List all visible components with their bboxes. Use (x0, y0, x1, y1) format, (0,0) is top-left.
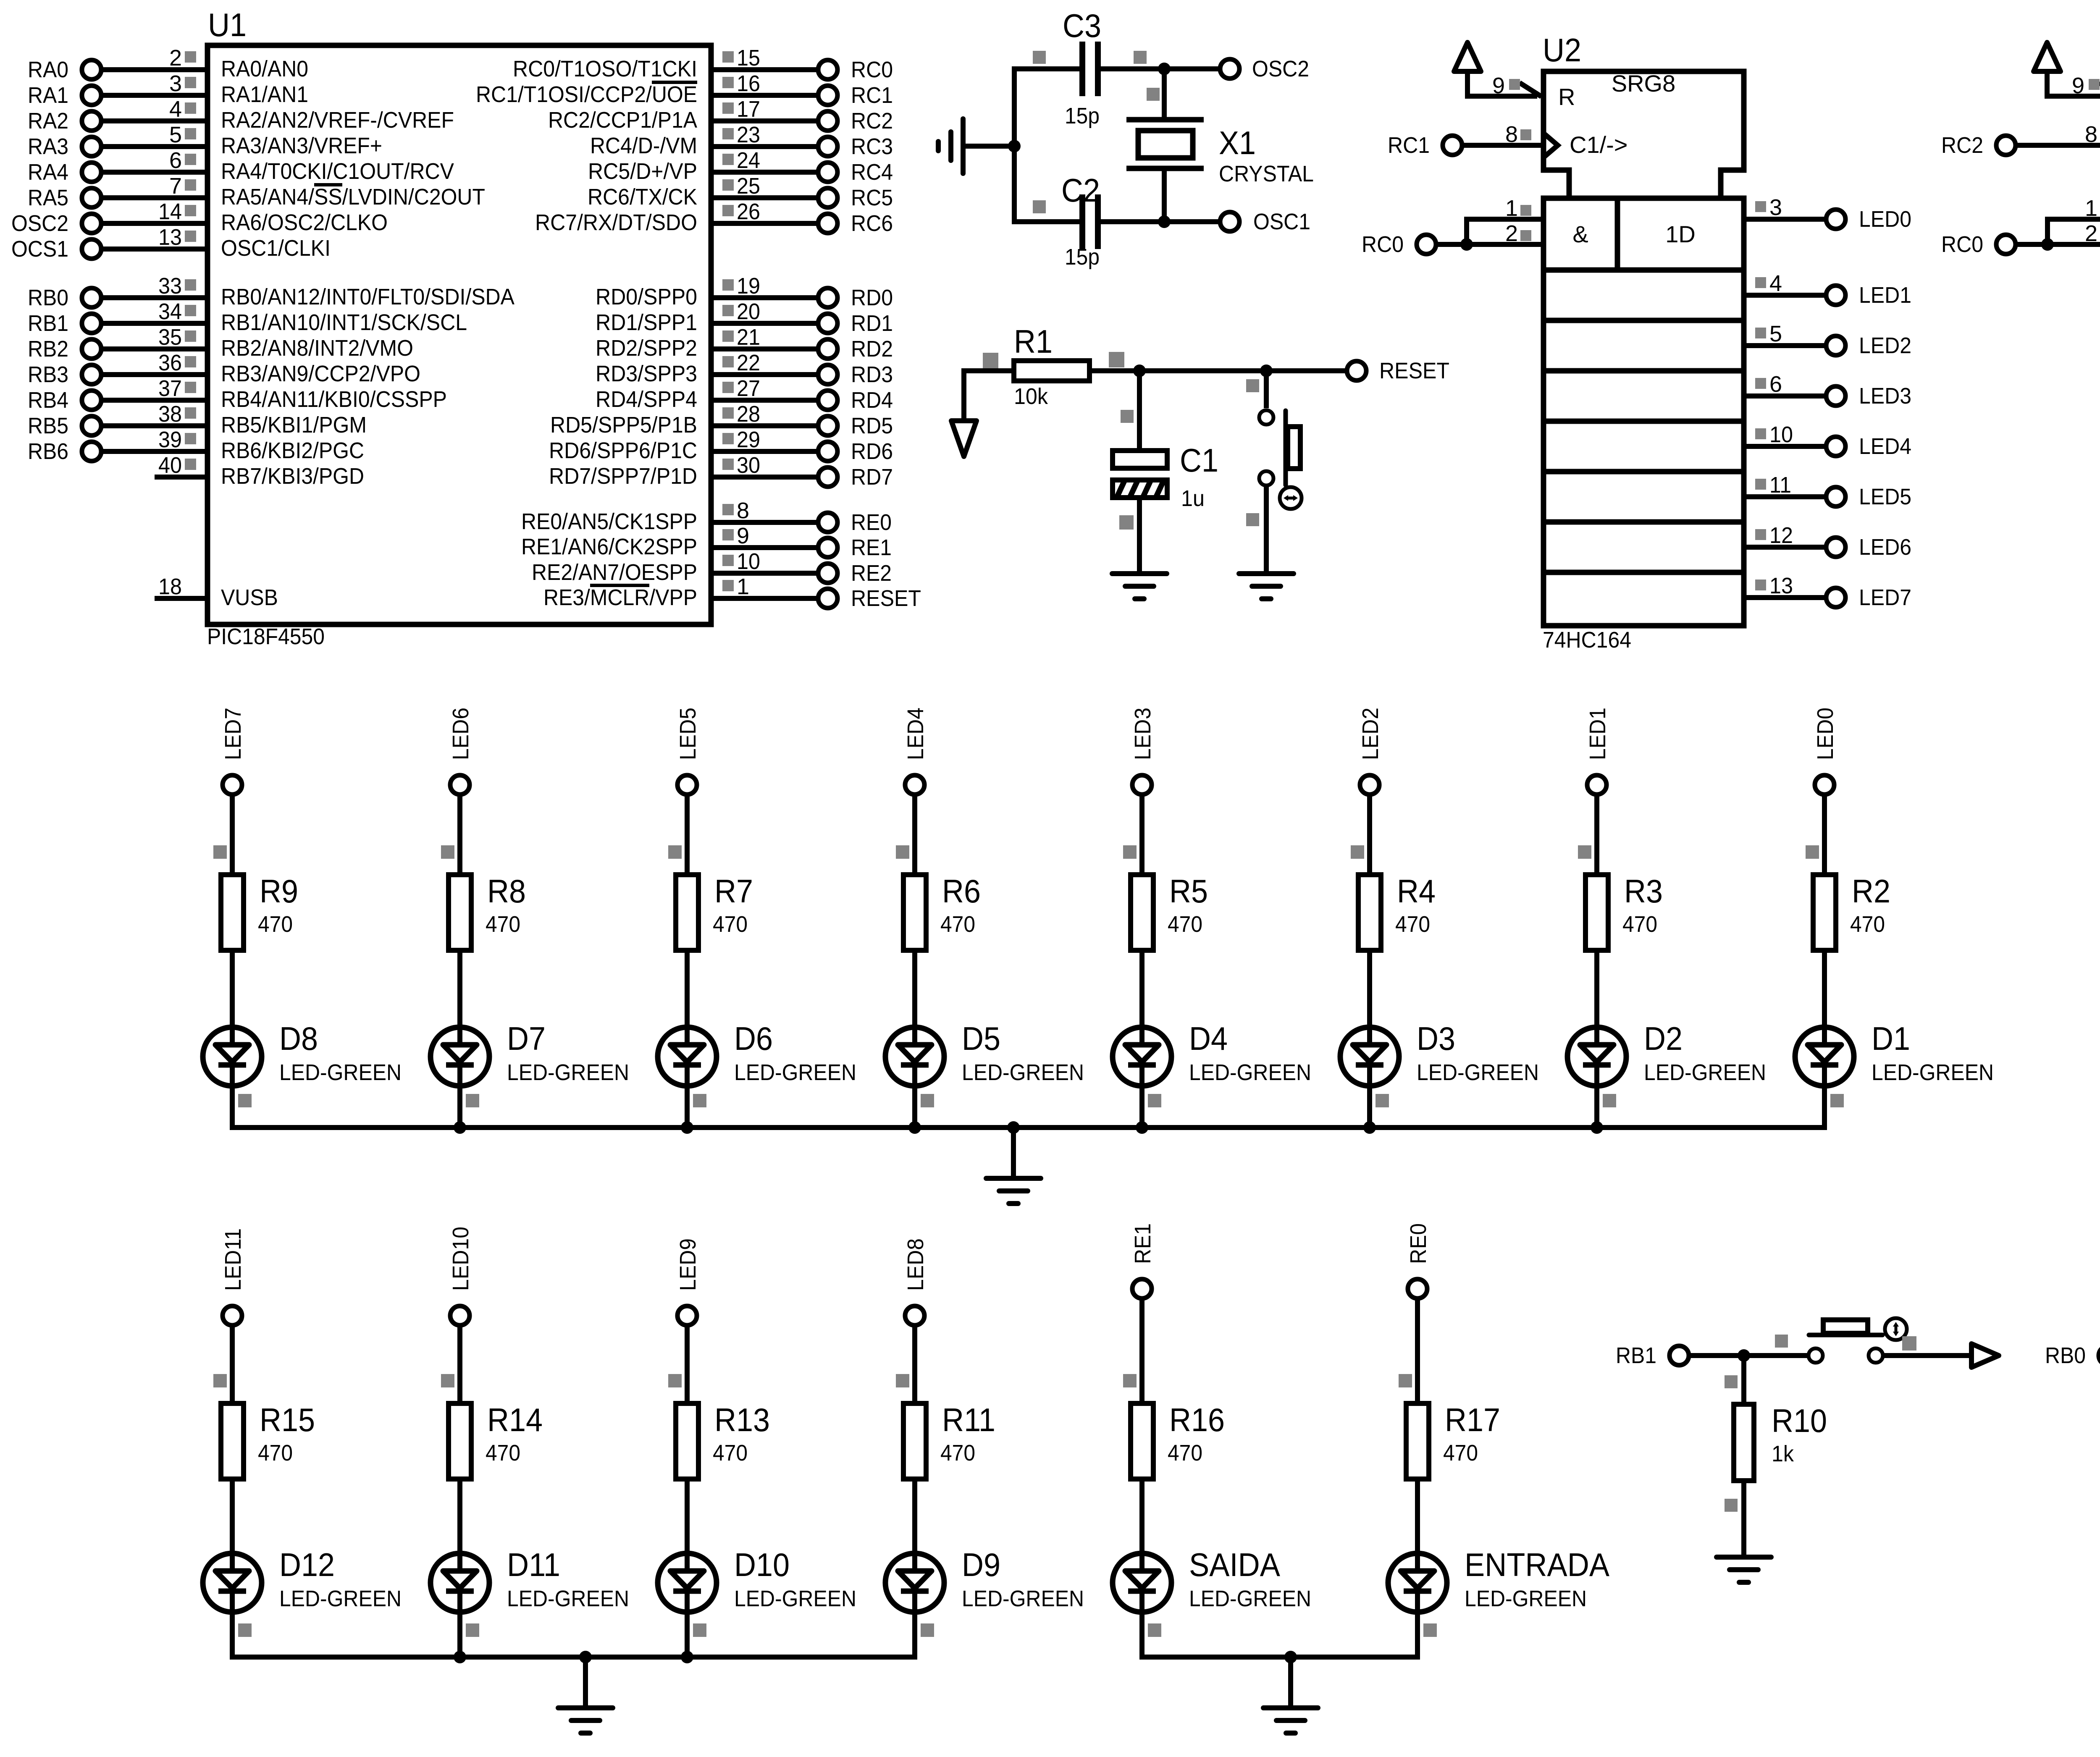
U2 part value 74HC164 (1543, 627, 1631, 653)
svg-text:RB4/AN11/KBI0/CSSPP: RB4/AN11/KBI0/CSSPP (221, 387, 447, 412)
svg-text:RD5: RD5 (851, 413, 893, 438)
svg-text:R6: R6 (942, 873, 981, 910)
junction node bus row1 x3802 (1591, 1121, 1603, 1134)
ground (row 1 bus) (986, 1128, 1041, 1204)
U1 pin 2 (RA0/AN0) (28, 45, 308, 82)
svg-text:RC2: RC2 (851, 108, 893, 134)
ground (crystal, rotated) (938, 119, 1014, 173)
svg-text:RC2/CCP1/P1A: RC2/CCP1/P1A (548, 108, 697, 133)
svg-text:LED4: LED4 (903, 708, 928, 760)
U2 pin 10 output wire (1744, 422, 1827, 447)
terminal LED5 (677, 775, 697, 795)
net label LED5 (vertical) (675, 708, 701, 760)
net label LED10 (vertical) (448, 1227, 473, 1291)
svg-text:R16: R16 (1169, 1401, 1225, 1438)
terminal LED7 (1826, 585, 1911, 610)
svg-text:470: 470 (486, 1440, 520, 1466)
svg-text:3: 3 (169, 71, 182, 96)
svg-text:OCS1: OCS1 (11, 236, 68, 262)
svg-text:LED-GREEN: LED-GREEN (734, 1586, 856, 1611)
LED D6 LED-GREEN (658, 1020, 856, 1086)
output arrow terminal (RB1) (1971, 1344, 1999, 1367)
wire RB1 to button (1688, 1335, 1809, 1356)
svg-text:D6: D6 (734, 1020, 773, 1057)
net label LED9 (vertical) (675, 1238, 701, 1291)
wire D3 to bus (1370, 1086, 1389, 1130)
svg-text:1D: 1D (1665, 221, 1696, 247)
U1 pin 37 (RB4/AN11/KBI0/CSSPP) (28, 376, 447, 413)
junction node RC0 U3 (2041, 238, 2054, 251)
resistor R9 470 (221, 873, 298, 950)
push button (reset) vertical (1246, 371, 1302, 574)
terminal LED8 (905, 1306, 924, 1325)
svg-text:RESET: RESET (1379, 358, 1449, 383)
svg-text:LED4: LED4 (1859, 434, 1911, 459)
svg-text:470: 470 (1850, 912, 1885, 937)
U3 pin 2 number (2085, 221, 2100, 246)
svg-text:RC6: RC6 (851, 211, 893, 236)
svg-text:470: 470 (258, 1440, 293, 1466)
U1 pin 23 (RC4/D-/VM) (590, 122, 893, 159)
wire crystal bottom lead (1162, 168, 1167, 222)
U2 pin 3 output wire (1744, 195, 1827, 220)
svg-text:LED6: LED6 (1859, 535, 1911, 560)
resistor R4 470 (1358, 873, 1436, 950)
svg-text:33: 33 (158, 273, 182, 299)
svg-text:RB6: RB6 (28, 439, 68, 464)
svg-text:24: 24 (737, 148, 760, 173)
svg-text:26: 26 (737, 199, 760, 224)
svg-text:RC5/D+/VP: RC5/D+/VP (588, 159, 697, 184)
chip U2 74HC164 control block (1543, 71, 1744, 198)
svg-text:21: 21 (737, 325, 760, 350)
svg-text:8: 8 (1505, 122, 1518, 147)
svg-text:470: 470 (713, 912, 748, 937)
svg-text:25: 25 (737, 173, 760, 199)
svg-text:RC5: RC5 (851, 185, 893, 210)
terminal RC2 (clock input U3) (1941, 133, 2100, 158)
svg-text:ENTRADA: ENTRADA (1465, 1546, 1609, 1583)
ground bus (row 1 LEDs) (230, 1125, 1827, 1130)
U1 pin 21 (RD2/SPP2) (596, 325, 893, 362)
junction node bus row1 x1636 (681, 1121, 693, 1134)
terminal OSC2 (1220, 56, 1309, 81)
U2 pin 9 number (1492, 73, 1520, 98)
svg-text:RD1: RD1 (851, 311, 893, 336)
wire D5 to bus (915, 1086, 934, 1130)
svg-text:D2: D2 (1644, 1020, 1683, 1057)
wire D6 to bus (687, 1086, 706, 1130)
svg-text:LED8: LED8 (903, 1238, 928, 1291)
svg-text:2: 2 (2085, 221, 2097, 246)
svg-text:RB0: RB0 (2045, 1343, 2086, 1368)
svg-text:RA6/OSC2/CLKO: RA6/OSC2/CLKO (221, 210, 388, 235)
svg-text:14: 14 (158, 199, 182, 224)
svg-text:37: 37 (158, 376, 182, 401)
svg-text:2: 2 (1505, 221, 1518, 246)
junction node bus row2 x1636 (681, 1651, 693, 1663)
svg-text:470: 470 (1168, 1440, 1202, 1466)
svg-text:LED-GREEN: LED-GREEN (279, 1586, 402, 1611)
terminal LED4 (1826, 434, 1911, 459)
wire R7 to D6 (685, 950, 690, 1045)
terminal LED1 (1826, 283, 1911, 308)
ground bus (row 2 LEDs) (230, 1655, 917, 1660)
svg-text:RA1/AN1: RA1/AN1 (221, 82, 308, 107)
U2 pin 1 number (1505, 196, 1531, 221)
svg-text:SRG8: SRG8 (1612, 70, 1676, 97)
svg-text:R8: R8 (487, 873, 526, 910)
svg-text:OSC2: OSC2 (1252, 56, 1309, 81)
power-rail down arrow (R1 pull source) (951, 368, 976, 456)
wire D10 to bus (687, 1612, 706, 1660)
svg-text:11: 11 (1769, 472, 1791, 498)
U1 pin 6 (RA4/T0CKI/C1OUT/RCV) (28, 148, 454, 185)
wire LED6 to R8 (441, 794, 460, 875)
svg-text:10: 10 (1769, 422, 1793, 447)
svg-text:RA4: RA4 (28, 160, 68, 185)
svg-text:LED-GREEN: LED-GREEN (734, 1060, 856, 1085)
wire R15 to D12 (230, 1479, 235, 1571)
svg-text:R15: R15 (260, 1401, 315, 1438)
svg-text:LED2: LED2 (1358, 708, 1383, 760)
svg-text:LED7: LED7 (1859, 585, 1911, 610)
svg-text:18: 18 (158, 574, 182, 599)
wire LED9 to R13 (668, 1325, 687, 1403)
svg-text:RC4: RC4 (851, 160, 893, 185)
wire OSC2 top rail (1014, 66, 1221, 71)
svg-text:X1: X1 (1219, 124, 1256, 161)
svg-text:RD3: RD3 (851, 362, 893, 387)
svg-text:R10: R10 (1772, 1402, 1827, 1439)
wire LED2 to R4 (1351, 794, 1370, 875)
wire D2 to bus (1597, 1086, 1616, 1130)
svg-text:RE1/AN6/CK2SPP: RE1/AN6/CK2SPP (521, 534, 697, 559)
svg-text:D4: D4 (1189, 1020, 1228, 1057)
U1 pin 33 (RB0/AN12/INT0/FLT0/SDI/SDA) (28, 273, 514, 310)
svg-text:RC2: RC2 (1941, 133, 1983, 158)
U2 pin 11 output wire (1744, 472, 1827, 498)
svg-text:30: 30 (737, 453, 760, 478)
svg-text:LED7: LED7 (220, 708, 246, 760)
svg-text:470: 470 (940, 912, 975, 937)
svg-text:C2: C2 (1061, 172, 1100, 209)
U2 pin 8 number (1505, 122, 1531, 147)
svg-text:LED2: LED2 (1859, 333, 1911, 358)
svg-text:RC4/D-/VM: RC4/D-/VM (590, 133, 697, 158)
wire RESET net horizontal (964, 368, 1347, 373)
svg-text:9: 9 (737, 523, 749, 548)
junction node OSC1/crystal (1158, 215, 1171, 228)
svg-text:40: 40 (158, 453, 182, 478)
svg-text:RB1/AN10/INT1/SCK/SCL: RB1/AN10/INT1/SCK/SCL (221, 310, 467, 335)
svg-text:RC1: RC1 (1388, 133, 1430, 158)
svg-text:RD6: RD6 (851, 439, 893, 464)
terminal LED3 (1132, 775, 1152, 795)
svg-text:LED9: LED9 (675, 1238, 701, 1291)
svg-text:20: 20 (737, 299, 760, 324)
wire R14 to D11 (457, 1479, 462, 1571)
svg-text:VUSB: VUSB (221, 585, 278, 610)
LED D4 LED-GREEN (1113, 1020, 1311, 1086)
terminal LED2 (1826, 333, 1911, 358)
junction node bus row1 ground (1007, 1121, 1020, 1134)
svg-text:1k: 1k (1772, 1441, 1794, 1466)
junction node OSC2/crystal (1158, 63, 1171, 75)
svg-text:6: 6 (169, 148, 182, 173)
junction node bus row1 x1095 (454, 1121, 466, 1134)
svg-text:RB1: RB1 (28, 311, 68, 336)
U1 pin 19 (RD0/SPP0) (596, 273, 893, 310)
svg-text:RD1/SPP1: RD1/SPP1 (596, 310, 697, 335)
U2 element block (1543, 198, 1744, 626)
svg-text:RC3: RC3 (851, 134, 893, 159)
terminal LED11 (223, 1306, 242, 1325)
svg-text:C1/->: C1/-> (1570, 131, 1628, 158)
svg-text:LED11: LED11 (220, 1228, 246, 1291)
U1 pin 26 (RC7/RX/DT/SDO) (535, 199, 893, 236)
capacitor C2 (1033, 172, 1100, 270)
LED D12 LED-GREEN (203, 1546, 402, 1612)
svg-text:OSC1: OSC1 (1253, 209, 1310, 234)
U1 pin 22 (RD3/SPP3) (596, 350, 893, 387)
terminal RESET (1347, 358, 1449, 383)
net label LED2 (vertical) (1358, 708, 1383, 760)
U1 pin 35 (RB2/AN8/INT2/VMO) (28, 325, 413, 362)
LED D3 LED-GREEN (1340, 1020, 1539, 1086)
svg-text:38: 38 (158, 401, 182, 427)
svg-text:D3: D3 (1417, 1020, 1455, 1057)
svg-text:RB3: RB3 (28, 362, 68, 387)
svg-text:RE2/AN7/OESPP: RE2/AN7/OESPP (532, 560, 697, 585)
svg-text:LED10: LED10 (448, 1227, 473, 1291)
U2 pin 5 output wire (1744, 321, 1827, 346)
U2 pin 12 output wire (1744, 523, 1827, 548)
svg-text:470: 470 (713, 1440, 748, 1466)
U3 pin 8 number (2085, 122, 2100, 147)
svg-text:8: 8 (2085, 122, 2097, 147)
power arrow (VCC to U2 R pin) (1454, 42, 1541, 99)
svg-text:LED5: LED5 (1859, 484, 1911, 509)
resistor R14 470 (449, 1401, 543, 1479)
resistor R2 470 (1813, 873, 1890, 950)
wire R9 to D8 (230, 950, 235, 1045)
svg-text:3: 3 (1769, 195, 1782, 220)
push button (RB1) (1809, 1318, 1916, 1363)
wire R4 to D3 (1367, 950, 1372, 1045)
svg-text:470: 470 (258, 912, 293, 937)
svg-text:LED1: LED1 (1859, 283, 1911, 308)
LED D5 LED-GREEN (885, 1020, 1084, 1086)
junction node bus row2 x1095 (454, 1651, 466, 1663)
LED SAIDA LED-GREEN (1113, 1546, 1311, 1612)
wire SAIDA to bus (1142, 1612, 1161, 1660)
LED D8 LED-GREEN (203, 1020, 402, 1086)
U2 refdes label (1543, 31, 1581, 68)
U1 pin 1 (RE3/MCLR/VPP) (543, 574, 921, 611)
power arrow (VCC to U3 R pin) (2034, 42, 2100, 99)
svg-text:LED0: LED0 (1813, 708, 1838, 760)
wire LED1 to R3 (1578, 794, 1597, 875)
net label LED11 (vertical) (220, 1228, 246, 1291)
terminal LED0 (1815, 775, 1834, 795)
U2 pin 4 output wire (1744, 271, 1827, 296)
ground bus (SAIDA/ENTRADA) (1139, 1655, 1420, 1660)
capacitor C3 (1033, 7, 1147, 128)
resistor R6 470 (903, 873, 981, 950)
svg-text:LED0: LED0 (1859, 207, 1911, 232)
net label LED4 (vertical) (903, 708, 928, 760)
terminal LED9 (677, 1306, 697, 1325)
U2 SRG8 label (1612, 70, 1676, 97)
svg-text:RD4/SPP4: RD4/SPP4 (596, 387, 697, 412)
svg-text:R1: R1 (1014, 323, 1053, 360)
svg-text:17: 17 (737, 97, 760, 122)
svg-text:10: 10 (737, 549, 760, 574)
svg-text:23: 23 (737, 122, 760, 147)
wire D12 to bus (232, 1612, 252, 1660)
svg-text:7: 7 (169, 173, 182, 199)
svg-text:R11: R11 (942, 1401, 995, 1438)
U1 pin 7 (RA5/AN4/SS/LVDIN/C2OUT) (28, 173, 485, 210)
U2 C1/-> clock label (1570, 131, 1628, 158)
terminal RB0 (2045, 1343, 2100, 1368)
svg-text:D10: D10 (734, 1546, 790, 1583)
svg-text:470: 470 (1395, 912, 1430, 937)
U1 pin 36 (RB3/AN9/CCP2/VPO) (28, 350, 420, 387)
U1 pin 14 (RA6/OSC2/CLKO) (11, 199, 388, 236)
svg-text:OSC1/CLKI: OSC1/CLKI (221, 236, 331, 261)
svg-text:R7: R7 (714, 873, 753, 910)
terminal LED7 (223, 775, 242, 795)
wire R8 to D7 (457, 950, 462, 1045)
LED D9 LED-GREEN (885, 1546, 1084, 1612)
svg-text:R9: R9 (260, 873, 298, 910)
svg-text:RC0: RC0 (1362, 232, 1404, 257)
terminal RC1 (clock input U2) (1388, 133, 1543, 158)
wire LED7 to R9 (213, 794, 232, 875)
svg-text:RB5: RB5 (28, 413, 68, 438)
net label LED7 (vertical) (220, 708, 246, 760)
svg-text:1: 1 (1505, 196, 1518, 221)
terminal RE0 (1408, 1279, 1427, 1298)
svg-text:RB6/KBI2/PGC: RB6/KBI2/PGC (221, 438, 364, 463)
net label LED1 (vertical) (1585, 708, 1610, 760)
wire R16 to SAIDA (1139, 1479, 1144, 1571)
svg-text:RC1/T1OSI/CCP2/UOE: RC1/T1OSI/CCP2/UOE (476, 82, 697, 107)
wire R3 to D2 (1594, 950, 1599, 1045)
svg-text:RB4: RB4 (28, 388, 68, 413)
LED D10 LED-GREEN (658, 1546, 856, 1612)
junction node bus row1 x2178 (908, 1121, 921, 1134)
terminal RC0 (data input U3) (1941, 232, 2100, 257)
svg-text:28: 28 (737, 401, 760, 427)
U1 part value PIC18F4550 (207, 624, 325, 649)
U1 pin 30 (RD7/SPP7/P1D) (549, 453, 893, 490)
LED D2 LED-GREEN (1567, 1020, 1766, 1086)
junction node RC0 U2 (1460, 238, 1473, 251)
resistor R3 470 (1585, 873, 1663, 950)
resistor R10 1k (1734, 1402, 1827, 1481)
svg-text:13: 13 (158, 225, 182, 250)
terminal LED4 (905, 775, 924, 795)
svg-text:RE1: RE1 (1130, 1223, 1155, 1264)
svg-text:LED6: LED6 (448, 708, 473, 760)
U1 pin 13 (OSC1/CLKI) (11, 225, 331, 262)
U3 pin 9 number (2072, 73, 2100, 98)
svg-text:RE2: RE2 (851, 561, 892, 586)
svg-text:RA2/AN2/VREF-/CVREF: RA2/AN2/VREF-/CVREF (221, 108, 454, 133)
U1 pin 29 (RD6/SPP6/P1C) (549, 427, 893, 464)
wire R6 to D5 (912, 950, 917, 1045)
wire OSC1 bottom rail (1014, 219, 1221, 224)
terminal LED0 (1826, 207, 1911, 232)
svg-text:LED-GREEN: LED-GREEN (507, 1060, 629, 1085)
svg-text:RE3/MCLR/VPP: RE3/MCLR/VPP (543, 585, 697, 610)
svg-text:LED-GREEN: LED-GREEN (1189, 1586, 1311, 1611)
U1 pin 5 (RA3/AN3/VREF+) (28, 122, 382, 159)
net label LED6 (vertical) (448, 708, 473, 760)
wire RE1 to R16 (1123, 1298, 1142, 1403)
svg-text:D1: D1 (1872, 1020, 1910, 1057)
net label LED0 (vertical) (1813, 708, 1838, 760)
svg-text:OSC2: OSC2 (11, 211, 68, 236)
svg-text:8: 8 (737, 498, 749, 523)
net label LED3 (vertical) (1130, 708, 1155, 760)
junction node bus row1 x2719 (1136, 1121, 1148, 1134)
resistor R8 470 (449, 873, 526, 950)
svg-text:R13: R13 (714, 1401, 770, 1438)
svg-text:LED-GREEN: LED-GREEN (1465, 1586, 1587, 1611)
svg-text:RD3/SPP3: RD3/SPP3 (596, 361, 697, 386)
svg-text:RC7/RX/DT/SDO: RC7/RX/DT/SDO (535, 210, 697, 235)
svg-text:U1: U1 (208, 6, 247, 43)
terminal LED5 (1826, 484, 1911, 509)
wire LED10 to R14 (441, 1325, 460, 1403)
U1 pin 28 (RD5/SPP5/P1B) (550, 401, 893, 438)
chip U1 PIC18F4550 body (207, 45, 711, 624)
U1 pin 24 (RC5/D+/VP) (588, 148, 893, 185)
wire C1 top lead (1121, 371, 1139, 451)
wire R17 to ENTRADA (1415, 1479, 1420, 1571)
net label LED8 (vertical) (903, 1238, 928, 1291)
junction node crystal-left (1008, 140, 1021, 152)
svg-text:D5: D5 (962, 1020, 1000, 1057)
LED D11 LED-GREEN (430, 1546, 629, 1612)
svg-text:1: 1 (2085, 196, 2097, 221)
svg-text:LED-GREEN: LED-GREEN (962, 1586, 1084, 1611)
svg-text:&: & (1572, 221, 1588, 247)
svg-text:RC0: RC0 (1941, 232, 1983, 257)
svg-text:RD2: RD2 (851, 336, 893, 362)
U1 refdes label (208, 6, 247, 43)
resistor R16 470 (1131, 1401, 1225, 1479)
net label RE1 (vertical) (1130, 1223, 1155, 1264)
U1 pin 34 (RB1/AN10/INT1/SCK/SCL) (28, 299, 467, 336)
svg-text:10k: 10k (1014, 384, 1048, 409)
svg-text:LED-GREEN: LED-GREEN (1872, 1060, 1994, 1085)
svg-text:D11: D11 (507, 1546, 560, 1583)
U2 pin 2 number (1505, 221, 1531, 246)
svg-text:R3: R3 (1624, 873, 1663, 910)
svg-text:LED3: LED3 (1130, 708, 1155, 760)
U1 pin 25 (RC6/TX/CK) (588, 173, 893, 210)
svg-text:12: 12 (1769, 523, 1793, 548)
svg-text:C3: C3 (1063, 7, 1101, 44)
svg-text:RB1: RB1 (1616, 1343, 1656, 1368)
U1 pin 18 (VUSB) (155, 574, 278, 610)
svg-text:LED5: LED5 (675, 708, 701, 760)
